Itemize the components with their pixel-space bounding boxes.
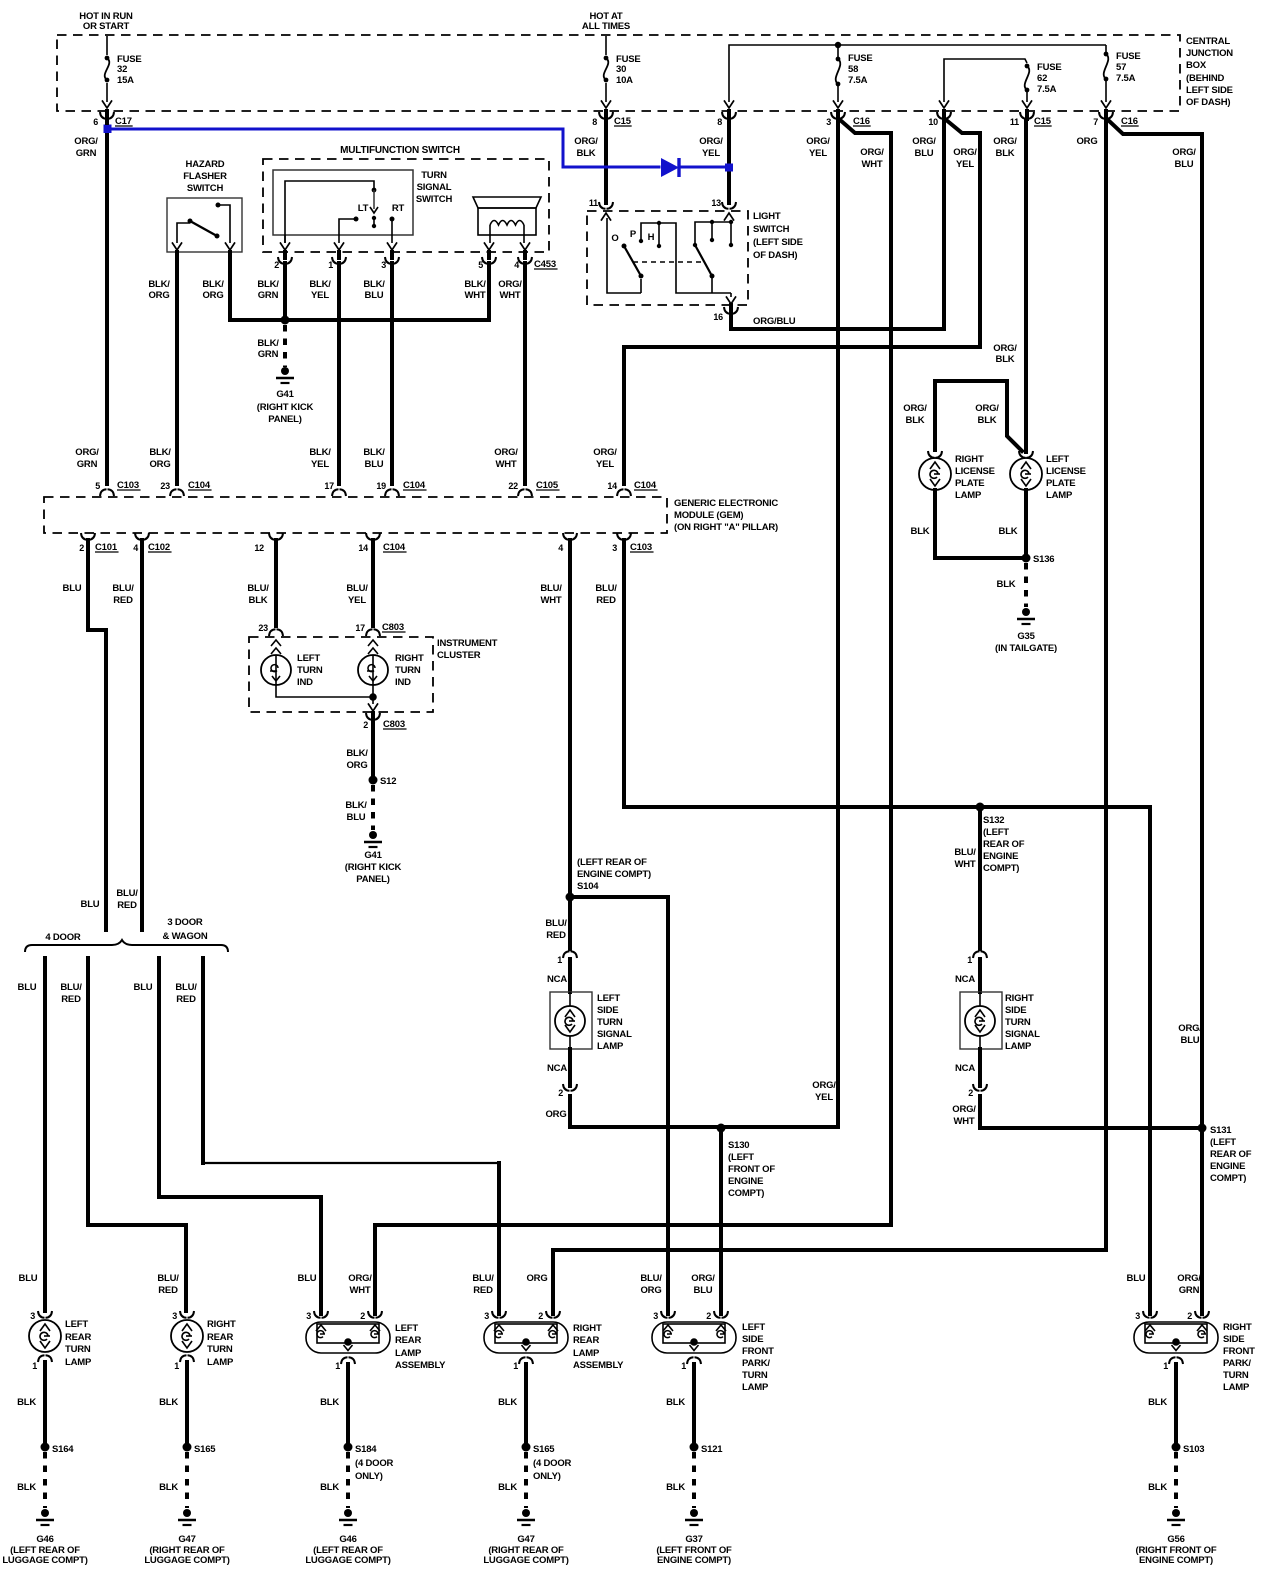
svg-text:H: H — [648, 232, 655, 243]
connector pin 1 left side turn lamp — [563, 951, 577, 958]
svg-text:LEFT: LEFT — [742, 1322, 765, 1333]
splice S103 — [1172, 1443, 1181, 1452]
connector C104 pin 19 — [385, 489, 399, 496]
svg-text:C104: C104 — [403, 480, 426, 491]
svg-text:(LEFT REAR OF: (LEFT REAR OF — [577, 857, 647, 868]
ground G46 — [41, 1509, 49, 1517]
svg-text:REAR: REAR — [65, 1332, 91, 1343]
wire fuse32 to C17 — [106, 83, 108, 102]
svg-text:ORG/: ORG/ — [1172, 147, 1196, 158]
svg-text:FRONT: FRONT — [1223, 1346, 1255, 1357]
connector C803 pin 17 — [366, 629, 380, 636]
svg-text:SIDE: SIDE — [1005, 1005, 1026, 1016]
svg-text:BLU/: BLU/ — [112, 583, 134, 594]
svg-text:S103: S103 — [1183, 1444, 1204, 1455]
svg-text:(RIGHT KICK: (RIGHT KICK — [345, 862, 402, 873]
svg-text:MULTIFUNCTION SWITCH: MULTIFUNCTION SWITCH — [340, 145, 460, 156]
svg-text:S184: S184 — [355, 1444, 377, 1455]
svg-text:BLU: BLU — [915, 148, 934, 159]
svg-text:BLU: BLU — [81, 899, 100, 910]
ground G41 right kick panel — [369, 831, 377, 839]
connector C453 pins 2 1 3 5 4 — [278, 257, 292, 264]
svg-text:LAMP: LAMP — [955, 490, 982, 501]
svg-text:RED: RED — [61, 994, 81, 1005]
svg-text:C103: C103 — [117, 480, 139, 491]
svg-text:GRN: GRN — [77, 459, 98, 470]
svg-text:1: 1 — [513, 1361, 518, 1371]
svg-text:3: 3 — [826, 117, 831, 127]
connector C15 pin 8 — [599, 112, 613, 119]
svg-text:ENGINE: ENGINE — [1210, 1161, 1245, 1172]
svg-text:BLU: BLU — [1181, 1035, 1200, 1046]
svg-text:57: 57 — [1116, 62, 1126, 73]
svg-text:BLU/: BLU/ — [60, 982, 82, 993]
svg-text:6: 6 — [93, 117, 98, 127]
svg-text:BLU/: BLU/ — [954, 847, 976, 858]
wire fuse58 to C16 — [837, 86, 839, 102]
wire license lamps feed — [935, 381, 1022, 451]
junction bus to fuse 58 — [835, 42, 841, 48]
fuse 62 7.5A — [1025, 64, 1030, 69]
svg-text:SWITCH: SWITCH — [753, 224, 790, 235]
node blue junction at C17 — [104, 125, 112, 133]
svg-text:2: 2 — [538, 1311, 543, 1321]
svg-text:FRONT: FRONT — [742, 1346, 774, 1357]
svg-text:(LEFT: (LEFT — [1210, 1137, 1236, 1148]
svg-text:BLU/: BLU/ — [346, 583, 368, 594]
svg-text:4: 4 — [133, 543, 138, 553]
svg-text:RIGHT: RIGHT — [395, 653, 424, 664]
svg-text:LEFT: LEFT — [1046, 454, 1069, 465]
svg-text:1: 1 — [328, 260, 333, 270]
connector pin 2 left side turn lamp — [568, 1049, 572, 1086]
svg-text:S130: S130 — [728, 1140, 749, 1151]
svg-text:BLU: BLU — [19, 1273, 38, 1284]
svg-text:FUSE: FUSE — [1116, 51, 1141, 62]
wire fuse62 link — [944, 59, 1027, 102]
svg-text:WHT: WHT — [540, 595, 561, 606]
svg-text:ORG/: ORG/ — [691, 1273, 715, 1284]
instrument cluster — [249, 637, 433, 712]
wire pin2 drop — [284, 235, 286, 243]
fuse 58 7.5A — [836, 57, 841, 62]
svg-text:ONLY): ONLY) — [533, 1471, 561, 1482]
svg-text:ASSEMBLY: ASSEMBLY — [573, 1360, 624, 1371]
svg-text:C104: C104 — [188, 480, 211, 491]
svg-text:NCA: NCA — [955, 974, 975, 985]
splice S12 — [369, 776, 378, 785]
svg-text:32: 32 — [117, 64, 127, 75]
svg-text:7: 7 — [1093, 117, 1098, 127]
ground G35 in tailgate — [1022, 608, 1030, 616]
svg-text:LUGGAGE COMPT): LUGGAGE COMPT) — [305, 1555, 390, 1566]
svg-text:YEL: YEL — [702, 148, 720, 159]
splice S131 — [1198, 1124, 1207, 1133]
connector C16 pin 3 — [831, 112, 845, 119]
svg-text:LAMP: LAMP — [573, 1348, 600, 1359]
ground G46 — [344, 1509, 352, 1517]
svg-text:G47: G47 — [178, 1534, 195, 1545]
svg-text:LEFT: LEFT — [395, 1323, 418, 1334]
node blue junction overlay C17 — [104, 125, 112, 133]
svg-text:ORG/: ORG/ — [903, 403, 927, 414]
svg-text:C17: C17 — [115, 116, 132, 127]
svg-text:C105: C105 — [536, 480, 559, 491]
svg-text:S132: S132 — [983, 815, 1004, 826]
connector C104 pin 14 bottom — [366, 533, 380, 540]
svg-text:S121: S121 — [701, 1444, 723, 1455]
svg-text:1: 1 — [32, 1361, 37, 1371]
svg-text:G46: G46 — [36, 1534, 53, 1545]
svg-text:P: P — [630, 229, 637, 240]
svg-text:2: 2 — [363, 720, 368, 730]
ground G47 — [522, 1509, 530, 1517]
svg-text:3: 3 — [172, 1311, 177, 1321]
svg-text:WHT: WHT — [349, 1285, 370, 1296]
svg-text:INSTRUMENT: INSTRUMENT — [437, 638, 498, 649]
svg-text:YEL: YEL — [956, 159, 974, 170]
svg-text:RED: RED — [113, 595, 133, 606]
svg-text:4: 4 — [558, 543, 563, 553]
wire fuse57 to C16 — [1105, 81, 1107, 102]
svg-text:YEL: YEL — [596, 459, 614, 470]
svg-text:FRONT OF: FRONT OF — [728, 1164, 775, 1175]
svg-text:10: 10 — [928, 117, 938, 127]
svg-text:BLK: BLK — [1148, 1397, 1167, 1408]
svg-text:TURN: TURN — [207, 1344, 233, 1355]
svg-text:LT: LT — [358, 203, 369, 214]
svg-text:BLK: BLK — [498, 1397, 517, 1408]
svg-text:BLK: BLK — [996, 354, 1015, 365]
svg-text:BLK: BLK — [999, 526, 1018, 537]
svg-text:(LEFT SIDE: (LEFT SIDE — [753, 237, 803, 248]
svg-text:LAMP: LAMP — [65, 1357, 92, 1368]
svg-text:1: 1 — [681, 1361, 686, 1371]
svg-text:COMPT): COMPT) — [728, 1188, 764, 1199]
svg-text:BLK: BLK — [498, 1482, 517, 1493]
lamp right side turn signal — [960, 992, 1002, 1049]
svg-text:WHT: WHT — [499, 290, 520, 301]
connector C16 pin 7 — [1099, 112, 1113, 119]
svg-text:MODULE (GEM): MODULE (GEM) — [674, 510, 743, 521]
svg-text:LUGGAGE COMPT): LUGGAGE COMPT) — [483, 1555, 568, 1566]
svg-text:RED: RED — [596, 595, 616, 606]
svg-text:10A: 10A — [616, 75, 633, 86]
node blue junction overlay pin8 — [725, 164, 733, 172]
svg-text:BLK: BLK — [1148, 1482, 1167, 1493]
svg-text:4 DOOR: 4 DOOR — [45, 932, 81, 943]
svg-text:17: 17 — [355, 623, 365, 633]
svg-text:LAMP: LAMP — [1223, 1382, 1250, 1393]
wire branch S104 to front lamp — [570, 897, 668, 1314]
svg-text:TURN: TURN — [421, 170, 447, 181]
svg-text:(LEFT: (LEFT — [728, 1152, 754, 1163]
svg-text:ORG: ORG — [526, 1273, 547, 1284]
svg-text:C453: C453 — [534, 259, 556, 270]
svg-text:14: 14 — [358, 543, 368, 553]
lamp right license plate — [928, 451, 942, 458]
svg-text:ORG/: ORG/ — [860, 147, 884, 158]
svg-text:BLK/: BLK/ — [202, 279, 224, 290]
svg-text:BLK: BLK — [159, 1397, 178, 1408]
svg-text:2: 2 — [274, 260, 279, 270]
svg-text:WHT: WHT — [953, 1116, 974, 1127]
svg-text:GRN: GRN — [76, 148, 97, 159]
wire fuse30 to C15 — [605, 83, 607, 102]
svg-text:2: 2 — [79, 543, 84, 553]
svg-text:(RIGHT KICK: (RIGHT KICK — [257, 402, 314, 413]
connector pin 16 — [730, 293, 732, 297]
svg-text:2: 2 — [706, 1311, 711, 1321]
ground G56 — [1172, 1509, 1180, 1517]
connector pin 4 bottom — [563, 533, 577, 540]
svg-text:ORG/: ORG/ — [348, 1273, 372, 1284]
svg-text:C16: C16 — [853, 116, 870, 127]
svg-text:SIGNAL: SIGNAL — [1005, 1029, 1040, 1040]
svg-text:BLU: BLU — [365, 290, 384, 301]
svg-text:WHT: WHT — [861, 159, 882, 170]
node blue junction on ORG/YEL — [725, 164, 733, 172]
svg-text:PLATE: PLATE — [1046, 478, 1075, 489]
svg-text:TURN: TURN — [297, 665, 323, 676]
svg-text:RIGHT: RIGHT — [1005, 993, 1034, 1004]
svg-text:19: 19 — [376, 481, 386, 491]
svg-text:BLU: BLU — [694, 1285, 713, 1296]
svg-text:ALL TIMES: ALL TIMES — [582, 21, 630, 32]
svg-text:G35: G35 — [1017, 631, 1035, 642]
svg-text:OR START: OR START — [83, 21, 130, 32]
svg-text:G37: G37 — [685, 1534, 702, 1545]
svg-text:GRN: GRN — [258, 349, 279, 360]
svg-text:7.5A: 7.5A — [848, 75, 868, 86]
svg-text:3: 3 — [306, 1311, 311, 1321]
svg-text:PANEL): PANEL) — [356, 874, 389, 885]
connector pin 10 — [937, 112, 951, 119]
svg-text:NCA: NCA — [547, 974, 567, 985]
svg-text:RED: RED — [176, 994, 196, 1005]
svg-text:ORG/: ORG/ — [574, 136, 598, 147]
svg-text:RIGHT: RIGHT — [573, 1323, 602, 1334]
lamp left license plate — [1019, 451, 1033, 458]
svg-text:BLU/: BLU/ — [640, 1273, 662, 1284]
svg-text:S104: S104 — [577, 881, 599, 892]
svg-text:ORG/: ORG/ — [699, 136, 723, 147]
svg-text:5: 5 — [478, 260, 483, 270]
svg-text:PLATE: PLATE — [955, 478, 984, 489]
wire indicator commons — [276, 685, 373, 697]
svg-text:12: 12 — [254, 543, 264, 553]
svg-text:BLK/: BLK/ — [257, 338, 279, 349]
wire fuse32 feed — [106, 36, 108, 55]
svg-text:ORG/: ORG/ — [912, 136, 936, 147]
svg-text:(LEFT: (LEFT — [983, 827, 1009, 838]
svg-text:ORG: ORG — [640, 1285, 661, 1296]
svg-text:BLU: BLU — [18, 982, 37, 993]
svg-text:SIGNAL: SIGNAL — [417, 182, 452, 193]
connector pin 8 — [722, 112, 736, 119]
wire fuse30 feed — [605, 36, 607, 55]
light switch internals — [607, 218, 641, 293]
connector C101 pin 2 — [81, 533, 95, 540]
svg-text:8: 8 — [592, 117, 597, 127]
svg-text:& WAGON: & WAGON — [162, 931, 207, 942]
svg-text:LEFT: LEFT — [65, 1319, 88, 1330]
wire ORG/YEL to GEM pin 14 — [624, 347, 980, 484]
svg-text:SWITCH: SWITCH — [187, 183, 224, 194]
svg-text:4: 4 — [514, 260, 519, 270]
svg-text:3 DOOR: 3 DOOR — [167, 917, 203, 928]
svg-text:BLK: BLK — [249, 595, 268, 606]
connector C17 pin 6 — [100, 112, 114, 119]
svg-text:GRN: GRN — [258, 290, 279, 301]
svg-text:G46: G46 — [339, 1534, 356, 1545]
svg-text:ORG/: ORG/ — [806, 136, 830, 147]
turn signal switch — [273, 170, 413, 235]
svg-text:RIGHT: RIGHT — [207, 1319, 236, 1330]
light switch — [587, 211, 748, 305]
wire CJB internal bus — [729, 45, 1106, 102]
fuse 57 7.5A — [1105, 45, 1107, 53]
diode D1 (blue) — [661, 158, 679, 177]
wire blue overlay — [107, 129, 659, 167]
svg-text:11: 11 — [1010, 117, 1019, 127]
svg-text:BLK: BLK — [17, 1397, 36, 1408]
svg-text:BLK: BLK — [320, 1397, 339, 1408]
svg-text:PARK/: PARK/ — [1223, 1358, 1251, 1369]
svg-text:13: 13 — [711, 198, 721, 208]
svg-text:ORG: ORG — [149, 459, 170, 470]
svg-text:ORG: ORG — [346, 760, 367, 771]
svg-text:23: 23 — [160, 481, 170, 491]
svg-text:3: 3 — [1135, 1311, 1140, 1321]
svg-text:3: 3 — [484, 1311, 489, 1321]
svg-text:ORG/: ORG/ — [74, 136, 98, 147]
wire ORG to right rear lamp assembly pin2 — [553, 1250, 1106, 1314]
svg-text:RED: RED — [158, 1285, 178, 1296]
svg-text:S131: S131 — [1210, 1125, 1232, 1136]
svg-text:ORG/: ORG/ — [975, 403, 999, 414]
svg-text:YEL: YEL — [311, 459, 329, 470]
svg-text:TURN: TURN — [1005, 1017, 1031, 1028]
svg-text:FUSE: FUSE — [1037, 62, 1062, 73]
svg-text:GENERIC ELECTRONIC: GENERIC ELECTRONIC — [674, 498, 778, 509]
wire blue hazard feed — [107, 129, 659, 167]
svg-text:2: 2 — [1187, 1311, 1192, 1321]
svg-text:C16: C16 — [1121, 116, 1138, 127]
svg-text:LAMP: LAMP — [207, 1357, 234, 1368]
svg-text:BLK/: BLK/ — [309, 279, 331, 290]
svg-text:2: 2 — [558, 1088, 563, 1098]
mechanical link — [633, 261, 702, 263]
turn signal switch internals — [285, 181, 374, 235]
svg-text:TURN: TURN — [597, 1017, 623, 1028]
wire fuse62 to C15 — [1026, 92, 1028, 102]
connector C15 pin 11 — [1020, 112, 1034, 119]
svg-text:SIGNAL: SIGNAL — [597, 1029, 632, 1040]
svg-text:(4 DOOR: (4 DOOR — [533, 1458, 572, 1469]
svg-text:TURN: TURN — [742, 1370, 768, 1381]
svg-text:IND: IND — [395, 677, 411, 688]
svg-text:58: 58 — [848, 64, 858, 75]
splice S165 — [522, 1443, 531, 1452]
svg-text:CENTRAL: CENTRAL — [1186, 36, 1230, 47]
splice S184 — [344, 1443, 353, 1452]
svg-text:YEL: YEL — [311, 290, 329, 301]
connector C102 pin 4 — [135, 533, 149, 540]
svg-text:ORG/: ORG/ — [1178, 1023, 1202, 1034]
lamp left side turn signal — [550, 992, 592, 1049]
svg-text:S165: S165 — [194, 1444, 216, 1455]
svg-text:GRN: GRN — [1179, 1285, 1200, 1296]
fuse 30 10A — [604, 56, 609, 61]
svg-text:BLU/: BLU/ — [540, 583, 562, 594]
svg-text:ORG: ORG — [545, 1109, 566, 1120]
svg-text:23: 23 — [258, 623, 268, 633]
svg-text:BLK: BLK — [320, 1482, 339, 1493]
svg-text:1: 1 — [557, 955, 562, 965]
svg-text:BLK: BLK — [159, 1482, 178, 1493]
svg-text:ORG/: ORG/ — [498, 279, 522, 290]
svg-text:62: 62 — [1037, 73, 1047, 84]
svg-text:LIGHT: LIGHT — [753, 211, 781, 222]
svg-text:BLU/: BLU/ — [595, 583, 617, 594]
svg-text:S165: S165 — [533, 1444, 555, 1455]
svg-text:3: 3 — [612, 543, 617, 553]
svg-text:OF DASH): OF DASH) — [753, 250, 797, 261]
svg-text:C102: C102 — [148, 542, 170, 553]
svg-text:30: 30 — [616, 64, 626, 75]
svg-text:IND: IND — [297, 677, 313, 688]
wire bus drop to fuse 58 — [837, 45, 839, 58]
svg-text:C15: C15 — [614, 116, 632, 127]
svg-text:ORG: ORG — [148, 290, 169, 301]
svg-text:LICENSE: LICENSE — [955, 466, 995, 477]
svg-text:BLK: BLK — [666, 1482, 685, 1493]
connector pin 1 right side turn lamp — [973, 951, 987, 958]
svg-text:BLK: BLK — [911, 526, 930, 537]
svg-text:SWITCH: SWITCH — [416, 194, 453, 205]
svg-text:PARK/: PARK/ — [742, 1358, 770, 1369]
connector C104 pin 23 — [170, 489, 184, 496]
svg-text:ORG: ORG — [1076, 136, 1097, 147]
svg-text:LEFT: LEFT — [297, 653, 320, 664]
svg-text:LICENSE: LICENSE — [1046, 466, 1086, 477]
splice S164 — [41, 1443, 50, 1452]
svg-text:REAR OF: REAR OF — [1210, 1149, 1252, 1160]
svg-text:BLU/: BLU/ — [175, 982, 197, 993]
svg-text:REAR OF: REAR OF — [983, 839, 1025, 850]
svg-text:NCA: NCA — [547, 1063, 567, 1074]
svg-text:TURN: TURN — [395, 665, 421, 676]
svg-text:BLU/: BLU/ — [545, 918, 567, 929]
svg-text:RT: RT — [392, 203, 405, 214]
ground G47 — [183, 1509, 191, 1517]
svg-text:C103: C103 — [630, 542, 652, 553]
connector C104 pin 14 — [617, 489, 631, 496]
svg-text:14: 14 — [607, 481, 617, 491]
svg-text:WHT: WHT — [495, 459, 516, 470]
svg-text:O: O — [611, 233, 618, 244]
svg-text:C101: C101 — [95, 542, 118, 553]
svg-text:BLK/: BLK/ — [309, 447, 331, 458]
brace — [25, 940, 228, 952]
svg-text:SIDE: SIDE — [1223, 1334, 1244, 1345]
svg-text:YEL: YEL — [809, 148, 827, 159]
svg-text:LUGGAGE COMPT): LUGGAGE COMPT) — [144, 1555, 229, 1566]
svg-text:SIDE: SIDE — [597, 1005, 618, 1016]
svg-text:LAMP: LAMP — [1005, 1041, 1032, 1052]
connector pin 11 — [599, 202, 613, 209]
